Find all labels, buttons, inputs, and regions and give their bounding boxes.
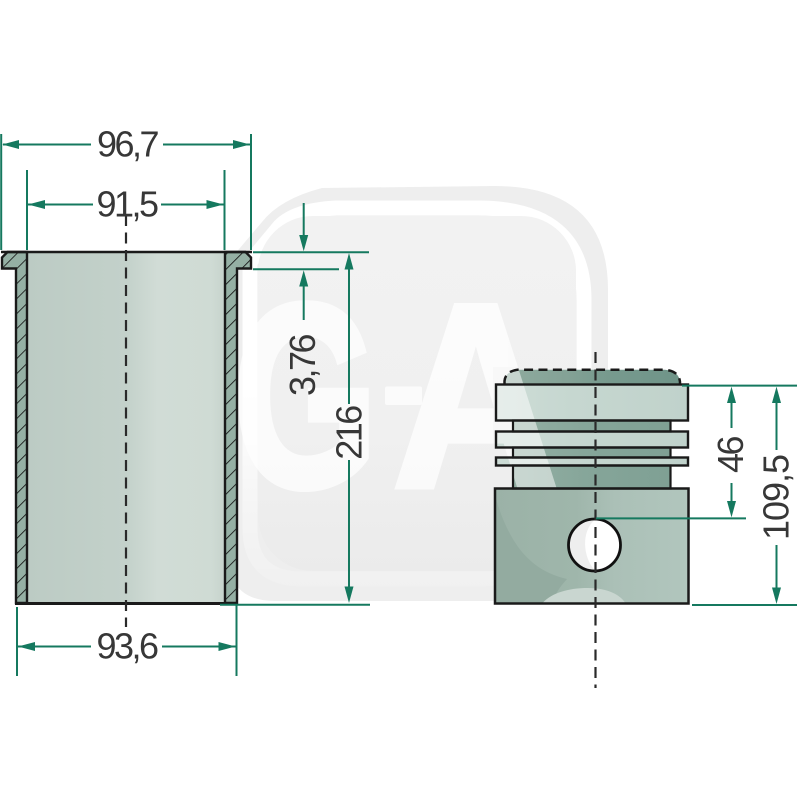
svg-text:216: 216 bbox=[329, 406, 370, 460]
hyphen bbox=[385, 387, 422, 406]
liner bottom edge bbox=[15, 602, 238, 605]
93,6 left arrowhead bbox=[18, 642, 35, 651]
svg-text:109,5: 109,5 bbox=[756, 455, 797, 540]
piston pin reference line bbox=[596, 517, 746, 519]
liner centerline bbox=[125, 215, 127, 627]
svg-text:3,76: 3,76 bbox=[282, 334, 323, 396]
piston groove 3 fill bbox=[513, 466, 671, 489]
svg-text:91,5: 91,5 bbox=[96, 184, 158, 225]
piston groove 1 outline bbox=[513, 421, 671, 432]
216 bottom arrowhead bbox=[345, 587, 354, 604]
46 bottom arrowhead bbox=[727, 501, 736, 517]
3,76 upper arrow tail bbox=[303, 203, 305, 236]
piston skirt fill bbox=[495, 489, 689, 604]
svg-text:46: 46 bbox=[710, 437, 751, 474]
liner top edge bbox=[1, 251, 252, 254]
watermark plate ring bbox=[228, 186, 608, 601]
svg-text:93,6: 93,6 bbox=[96, 626, 158, 667]
216 bottom reference line bbox=[220, 604, 370, 606]
liner bore interior fill bbox=[27, 252, 225, 603]
piston groove 2 outline bbox=[513, 448, 671, 458]
piston top land outline bbox=[496, 385, 688, 421]
piston top reference line bbox=[682, 385, 797, 387]
109,5 upper arrow tail bbox=[776, 402, 778, 450]
svg-text:96,7: 96,7 bbox=[97, 124, 159, 165]
93,6 dimension line bbox=[18, 646, 91, 648]
109,5 lower arrow tail bbox=[776, 545, 778, 588]
skirt left dark shading bbox=[495, 495, 567, 603]
liner left wall fill bbox=[2, 252, 27, 603]
3,76 lower arrow tail bbox=[303, 285, 305, 320]
93,6 right arrowhead bbox=[219, 642, 236, 651]
46 lower arrow tail bbox=[731, 483, 733, 502]
46 top arrowhead bbox=[727, 387, 736, 403]
watermark plate inner bbox=[258, 216, 576, 571]
dimension labels bbox=[96, 124, 796, 667]
watermark white separator ring bbox=[250, 208, 584, 579]
liner right wall hatch + outline bbox=[225, 252, 251, 603]
91,5 right arrowhead bbox=[207, 200, 224, 209]
piston land 3 outline bbox=[496, 458, 688, 466]
216 dimension line lower bbox=[348, 460, 350, 588]
3,76 lower arrowhead bbox=[299, 270, 308, 286]
skirt bottom light pool bbox=[543, 588, 625, 603]
piston groove 3 outline bbox=[513, 466, 671, 489]
piston pin hole outline bbox=[569, 519, 621, 571]
piston top land fill bbox=[496, 385, 688, 421]
piston crown dashed outline bbox=[505, 370, 681, 385]
liner right wall fill bbox=[225, 252, 251, 603]
piston land 3 fill bbox=[496, 458, 688, 466]
piston land 2 fill bbox=[496, 432, 688, 448]
216 top arrowhead bbox=[345, 253, 354, 270]
piston pin hole fill bbox=[569, 519, 621, 571]
liner left wall hatch + outline bbox=[2, 252, 27, 603]
109,5 top arrowhead bbox=[772, 387, 781, 403]
piston skirt outline bbox=[495, 489, 689, 604]
96,7 dimension line bbox=[3, 144, 91, 146]
93,6 extension lines bbox=[16, 607, 18, 676]
piston centerline bbox=[594, 352, 596, 688]
piston land 2 outline bbox=[496, 432, 688, 448]
96,7 right arrowhead bbox=[233, 140, 250, 149]
96,7 extension lines bbox=[0, 134, 2, 250]
piston groove 1 fill bbox=[513, 421, 671, 432]
216 dimension line upper bbox=[348, 268, 350, 404]
piston groove 2 fill bbox=[513, 448, 671, 458]
96,7 left arrowhead bbox=[2, 140, 19, 149]
3,76 bottom reference line bbox=[253, 268, 339, 270]
piston bottom reference line bbox=[692, 604, 797, 606]
91,5 dimension line bbox=[28, 204, 93, 206]
109,5 bottom arrowhead bbox=[772, 588, 781, 605]
piston crown fill bbox=[505, 370, 681, 385]
3,76 upper arrowhead bbox=[299, 235, 308, 251]
3,76 top reference line bbox=[253, 251, 369, 253]
46 upper arrow tail bbox=[731, 402, 733, 428]
91,5 left arrowhead bbox=[28, 200, 45, 209]
91,5 extension lines bbox=[26, 170, 28, 250]
